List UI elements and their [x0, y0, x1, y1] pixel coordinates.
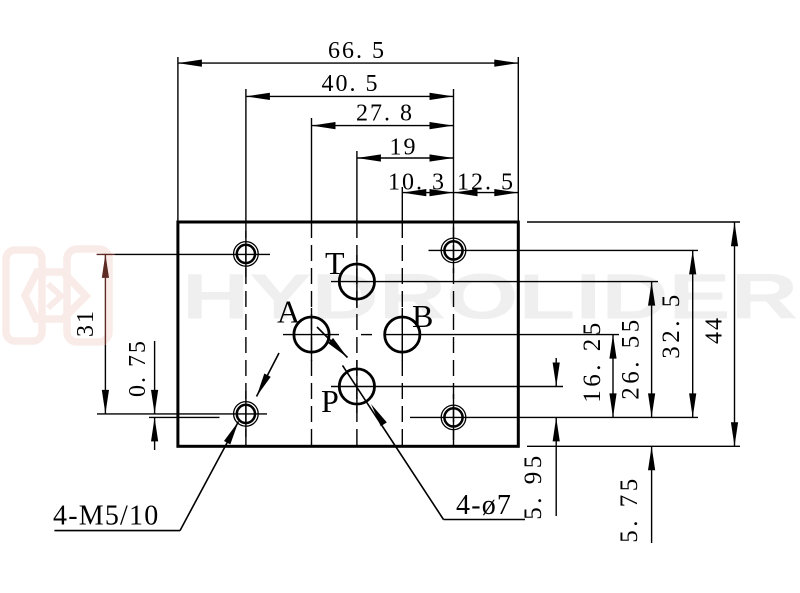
ext B column — [401, 187, 403, 222]
top edge ext for 44 — [527, 221, 740, 223]
port A — [294, 317, 329, 352]
svg-text:T: T — [325, 245, 345, 281]
dim 27.8 — [312, 125, 454, 127]
svg-text:0. 75: 0. 75 — [125, 339, 151, 397]
dim 32.5 — [692, 250, 694, 417]
mounting hole BL (M5) — [234, 402, 259, 427]
BL hole centerline + ext — [97, 413, 267, 415]
svg-text:5. 95: 5. 95 — [520, 452, 547, 520]
watermark logo (light pink) — [6, 249, 109, 342]
svg-text:31: 31 — [73, 309, 99, 337]
centerline right column — [453, 222, 455, 446]
dim 40.5 — [246, 95, 454, 97]
BR hole centerline + dims ext — [410, 416, 698, 418]
svg-text:4-ø7: 4-ø7 — [456, 490, 512, 521]
horizontal centerlines / extension lines — [97, 222, 740, 446]
svg-text:A: A — [277, 294, 300, 330]
mounting hole TL (M5) — [234, 242, 259, 267]
dim 44 — [734, 222, 736, 446]
0.75 lower ext line — [149, 416, 220, 418]
leader 4-M5/10 — [54, 530, 180, 532]
centerline left column — [245, 222, 247, 446]
dashed centerlines inside plate — [246, 222, 454, 446]
solid crosshair segments at holes — [246, 227, 454, 440]
ext right edge — [517, 57, 519, 222]
svg-text:19: 19 — [390, 135, 418, 161]
svg-text:10. 3: 10. 3 — [388, 169, 446, 195]
port P — [339, 369, 374, 404]
P centerline + 5.95 ext — [331, 386, 563, 388]
svg-text:P: P — [321, 383, 339, 419]
svg-text:40. 5: 40. 5 — [322, 71, 380, 97]
port B — [385, 317, 420, 352]
svg-text:27. 8: 27. 8 — [356, 100, 414, 126]
leader 4-ø7 — [444, 519, 526, 521]
plate outline — [178, 222, 518, 446]
dim 66.5 — [178, 62, 518, 64]
svg-text:12. 5: 12. 5 — [457, 169, 515, 195]
dim 12.5 — [454, 192, 519, 194]
svg-text:32. 5: 32. 5 — [658, 291, 685, 359]
svg-text:66. 5: 66. 5 — [328, 38, 386, 64]
port T — [339, 264, 374, 299]
center dash between A and B — [361, 334, 372, 336]
dim 19 — [357, 157, 454, 159]
dim 0.75 — [154, 341, 156, 414]
svg-text:26. 55: 26. 55 — [618, 316, 645, 400]
dim 26.55 — [651, 282, 653, 418]
TL hole centerline + 31 ext (part over logo drawn maroon below) — [115, 253, 270, 255]
vertical extension lines above plate — [178, 57, 518, 222]
A centerline — [283, 334, 339, 336]
ext A column — [311, 118, 313, 222]
svg-text:B: B — [412, 298, 433, 334]
mounting hole TR (M5) — [441, 238, 466, 263]
ext left edge — [177, 57, 179, 222]
TR hole centerline + 32.5 ext — [429, 249, 699, 251]
svg-text:16. 25: 16. 25 — [579, 319, 606, 403]
dim 31 (maroon over logo) — [104, 254, 106, 345]
extra arrow at BL hole — [257, 353, 280, 397]
bottom edge ext for 44 / 5.75 — [527, 445, 740, 447]
ext left hole column — [245, 89, 247, 222]
T centerline + 26.55 ext — [331, 281, 658, 283]
dim 16.25 — [612, 335, 614, 418]
centerline A column — [311, 222, 313, 446]
dim 5.75 — [651, 446, 653, 543]
svg-text:44: 44 — [702, 316, 728, 344]
ext T/P column — [356, 151, 358, 222]
svg-text:5. 75: 5. 75 — [616, 475, 643, 543]
ext right hole column — [453, 89, 455, 222]
mounting hole BR (M5) — [441, 405, 466, 430]
dim 5.95 — [555, 358, 557, 387]
centerline B column — [401, 222, 403, 446]
centerline T/P column — [356, 222, 358, 446]
svg-text:4-M5/10: 4-M5/10 — [53, 501, 159, 532]
dim 10.3 — [402, 192, 453, 194]
B centerline + 16.25 ext — [384, 334, 619, 336]
extra arrow A to P — [317, 327, 348, 358]
